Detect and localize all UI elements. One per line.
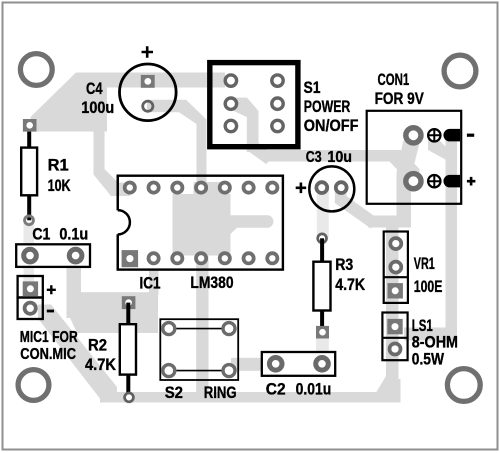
resistor R1 xyxy=(21,119,71,225)
svg-text:C4: C4 xyxy=(86,80,103,98)
svg-text:S2: S2 xyxy=(165,383,183,402)
capacitor C1 xyxy=(16,225,90,267)
svg-text:C2: C2 xyxy=(266,381,286,399)
wire MIC1 minus diagonal to bottom rail xyxy=(38,305,117,403)
resistor R2 xyxy=(85,296,136,402)
wire R3 to C2 right pad xyxy=(316,332,329,358)
capacitor C2 xyxy=(262,352,335,399)
ground pour under IC1 xyxy=(173,182,274,397)
svg-text:4.7K: 4.7K xyxy=(335,276,365,294)
wire band under CON1 to VR1 xyxy=(368,216,411,228)
wire S2 to C2 left pad xyxy=(231,358,270,371)
potentiometer VR1 xyxy=(384,232,443,303)
svg-text:R2: R2 xyxy=(88,337,107,355)
svg-text:ON/OFF: ON/OFF xyxy=(304,117,359,135)
pour around R2 top pad / C1 xyxy=(77,292,158,333)
wire S1 internal trace from middle-left pad xyxy=(231,98,259,152)
svg-text:0.01u: 0.01u xyxy=(296,381,332,399)
wire column behind VR1/LS1 down to rail xyxy=(386,228,399,368)
wire R1 pad / C1 left pad / MIC1 plus column xyxy=(24,222,35,289)
wire IC1 pin 2 to R2 pour xyxy=(149,269,159,295)
capacitor C3 xyxy=(296,149,355,211)
resistor R3 xyxy=(313,234,365,339)
svg-text:C3: C3 xyxy=(306,149,322,166)
svg-text:R3: R3 xyxy=(335,256,353,274)
svg-text:S1: S1 xyxy=(304,79,321,97)
wire elbow to LS1 pin 1 xyxy=(404,328,457,341)
mounting hole top-left xyxy=(20,54,52,86)
wire band from S1 to CON1 plus pad xyxy=(264,150,390,162)
svg-text:MIC1 FOR: MIC1 FOR xyxy=(20,329,78,346)
wire column from pour down to IC1 pin 14 xyxy=(94,131,131,196)
wire C3 minus pad down to R3 xyxy=(317,190,329,238)
bottom row pads xyxy=(122,250,139,267)
svg-text:LM380: LM380 xyxy=(190,274,233,292)
mounting hole bottom-left xyxy=(18,370,49,401)
switch S2 xyxy=(160,319,238,402)
svg-text:FOR 9V: FOR 9V xyxy=(375,90,424,108)
connector CON1 xyxy=(367,71,476,204)
wire pour from R1 top pad to S1 top-left pad (with C4 positive pad) xyxy=(27,73,225,132)
IC socket IC1 LM380 xyxy=(105,176,283,293)
mounting hole top-right xyxy=(444,55,476,87)
ground rail along bottom xyxy=(100,379,401,403)
top row pads xyxy=(125,183,278,193)
connector MIC1 xyxy=(18,276,79,363)
mounting hole bottom-right xyxy=(447,369,480,402)
svg-text:10u: 10u xyxy=(327,149,352,166)
svg-text:8-OHM: 8-OHM xyxy=(412,334,458,352)
svg-text:0.5W: 0.5W xyxy=(412,350,445,368)
wire C1 right pad down to pour xyxy=(67,255,82,318)
switch S1 xyxy=(210,63,359,147)
svg-text:100u: 100u xyxy=(81,99,114,117)
wire C3 plus pad diagonal to band xyxy=(335,190,377,229)
wire CON1 minus terminal long trace down right side xyxy=(428,138,450,162)
wire from C4 negative pad right then down to IC1 pour xyxy=(147,100,207,190)
svg-text:R1: R1 xyxy=(48,157,69,175)
speaker connector LS1 xyxy=(382,313,458,369)
svg-text:100E: 100E xyxy=(414,278,443,296)
svg-text:RING: RING xyxy=(204,383,237,402)
svg-text:0.1u: 0.1u xyxy=(59,225,88,243)
svg-text:10K: 10K xyxy=(48,177,71,195)
svg-text:VR1: VR1 xyxy=(414,255,435,273)
svg-text:CON1: CON1 xyxy=(378,71,410,89)
capacitor C4 xyxy=(81,46,176,120)
svg-text:LS1: LS1 xyxy=(412,317,433,335)
svg-text:C1: C1 xyxy=(32,225,50,243)
wire CON1 pad1 down inside box xyxy=(397,136,420,228)
svg-text:IC1: IC1 xyxy=(140,275,161,293)
svg-text:POWER: POWER xyxy=(304,98,351,116)
svg-text:CON.MIC: CON.MIC xyxy=(20,346,76,363)
svg-text:4.7K: 4.7K xyxy=(85,356,116,374)
